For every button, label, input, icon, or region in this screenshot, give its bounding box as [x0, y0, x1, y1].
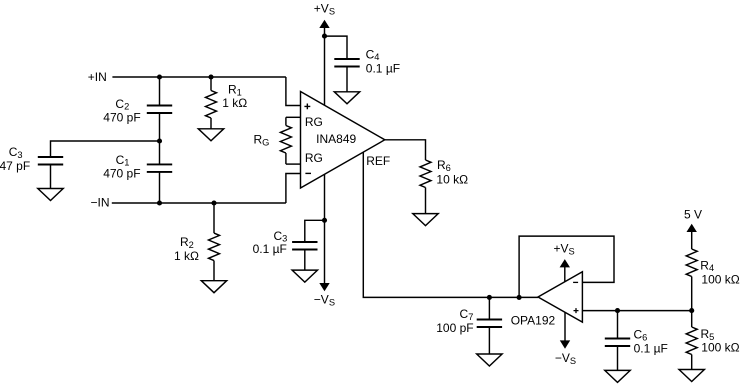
- wire +VS to C4 branch: [325, 36, 348, 59]
- ground under R2: [201, 281, 226, 293]
- wire C2 top branch: [159, 77, 161, 106]
- wire C3 bypass to ground: [304, 250, 306, 271]
- wire -IN horizontal: [112, 202, 286, 204]
- ground under R1: [198, 129, 223, 141]
- op-amp U1 INA849 triangle: [301, 92, 385, 189]
- wire +VS stem OPA192: [564, 267, 566, 282]
- capacitor C4: [334, 59, 359, 67]
- op-amp U2 OPA192 triangle: [538, 272, 582, 322]
- svg-text:OPA192: OPA192: [511, 313, 556, 327]
- capacitor C3 bypass 0.1uF: [292, 242, 317, 250]
- wire C1 bottom to -IN line: [159, 172, 161, 203]
- svg-text:C4: C4: [366, 47, 380, 62]
- capacitor C3: [38, 157, 63, 165]
- svg-text:100 pF: 100 pF: [436, 321, 473, 335]
- resistor RG: [280, 117, 291, 164]
- svg-text:5 V: 5 V: [684, 208, 702, 222]
- wire C7 branch: [488, 297, 490, 319]
- supply arrow 5 V: [687, 224, 697, 232]
- svg-text:R5: R5: [701, 327, 715, 342]
- wire C7 to ground: [488, 327, 490, 354]
- svg-text:−VS: −VS: [555, 351, 576, 366]
- svg-text:RG: RG: [254, 133, 270, 148]
- svg-text:RG: RG: [305, 115, 323, 129]
- svg-text:C7: C7: [460, 307, 474, 322]
- capacitor C6: [605, 339, 630, 347]
- svg-text:+VS: +VS: [554, 242, 575, 257]
- wire C6 branch: [617, 311, 619, 339]
- svg-text:R4: R4: [700, 258, 714, 273]
- supply arrow +VS OPA192: [560, 259, 570, 267]
- wire feedback loop OPA192: [519, 236, 614, 297]
- wire C2 bottom to mid node: [159, 113, 161, 141]
- resistor R4: [686, 249, 697, 311]
- ground under C7: [477, 354, 502, 366]
- wire C6 to ground: [617, 346, 619, 370]
- svg-text:0.1 µF: 0.1 µF: [253, 242, 287, 256]
- junction dot output at C7: [487, 295, 492, 300]
- wire +IN horizontal: [112, 76, 286, 78]
- pin marker - of OPA192: [573, 281, 578, 283]
- junction dot + input at C6: [615, 308, 620, 313]
- svg-text:1 kΩ: 1 kΩ: [222, 96, 247, 110]
- svg-text:47 pF: 47 pF: [0, 159, 30, 173]
- svg-text:100 kΩ: 100 kΩ: [701, 341, 739, 355]
- capacitor C1: [147, 164, 172, 172]
- svg-text:+IN: +IN: [88, 70, 107, 84]
- supply arrow -VS of INA849: [319, 283, 329, 291]
- wire C3 to ground: [50, 165, 52, 189]
- wire RG top pin: [286, 116, 301, 118]
- svg-text:470 pF: 470 pF: [103, 111, 140, 125]
- junction dot -VS at C3 bypass: [322, 218, 327, 223]
- svg-text:1 kΩ: 1 kΩ: [174, 249, 199, 263]
- ground under C4: [334, 92, 359, 104]
- pin marker + of OPA192: [574, 308, 579, 313]
- svg-text:C1: C1: [116, 153, 130, 168]
- junction dot mid node C2 C1: [157, 138, 162, 143]
- ground under R5: [679, 370, 704, 382]
- junction dot +IN at R1: [208, 74, 213, 79]
- svg-text:RG: RG: [305, 151, 323, 165]
- svg-text:100 kΩ: 100 kΩ: [701, 273, 739, 287]
- resistor R1: [206, 77, 217, 129]
- svg-text:0.1 µF: 0.1 µF: [366, 61, 400, 75]
- svg-text:C3: C3: [9, 145, 23, 160]
- wire mid node to C1: [159, 141, 161, 164]
- wire -VS pin of INA849 down: [324, 174, 326, 283]
- svg-text:C2: C2: [115, 97, 129, 112]
- capacitor C2: [147, 106, 172, 114]
- wire 5V rail to R4: [691, 231, 693, 249]
- supply arrow +VS: [319, 20, 329, 28]
- svg-text:C6: C6: [634, 328, 648, 343]
- wire -VS stem OPA192: [564, 312, 566, 341]
- resistor R5: [686, 311, 697, 370]
- svg-text:REF: REF: [366, 154, 390, 168]
- svg-text:INA849: INA849: [316, 132, 356, 146]
- wire REF pin to OPA192 output: [363, 152, 538, 297]
- junction dot output at feedback: [517, 295, 522, 300]
- wire +VS rail into INA849 top edge: [324, 27, 326, 105]
- svg-text:R2: R2: [180, 235, 194, 250]
- wire -IN to INA849 - pin: [286, 174, 301, 204]
- resistor R6: [420, 160, 431, 214]
- ground under C3: [38, 189, 63, 201]
- ground under C6: [605, 370, 630, 382]
- junction dot -IN at C1: [157, 200, 162, 205]
- ground under C3 bypass: [292, 270, 317, 282]
- pin marker - of INA849: [305, 172, 311, 174]
- wire -VS rail to C3 bypass branch: [305, 220, 325, 242]
- resistor R2: [209, 203, 220, 281]
- junction dot +VS at C4: [322, 34, 327, 39]
- capacitor C7: [477, 320, 502, 328]
- svg-text:R6: R6: [437, 158, 451, 173]
- svg-text:470 pF: 470 pF: [103, 167, 140, 181]
- junction dot -IN at R2: [211, 200, 216, 205]
- svg-text:10 kΩ: 10 kΩ: [436, 172, 468, 186]
- svg-text:−VS: −VS: [314, 293, 335, 308]
- junction dot divider R4 R5: [689, 308, 694, 313]
- supply arrow -VS OPA192: [560, 340, 570, 348]
- svg-text:0.1 µF: 0.1 µF: [634, 342, 668, 356]
- wire mid node to C3 branch: [51, 141, 160, 157]
- wire C4 to ground: [346, 67, 348, 92]
- wire +IN to INA849 + pin: [286, 77, 301, 106]
- pin marker + of INA849: [304, 104, 310, 110]
- wire RG bottom pin: [286, 163, 301, 165]
- wire INA849 output to R6: [385, 140, 426, 160]
- ground under R6: [413, 214, 438, 226]
- junction dot +IN at C2: [157, 74, 162, 79]
- wire OPA192 + input to divider: [582, 310, 691, 312]
- svg-text:+VS: +VS: [314, 2, 335, 17]
- svg-text:−IN: −IN: [90, 196, 109, 210]
